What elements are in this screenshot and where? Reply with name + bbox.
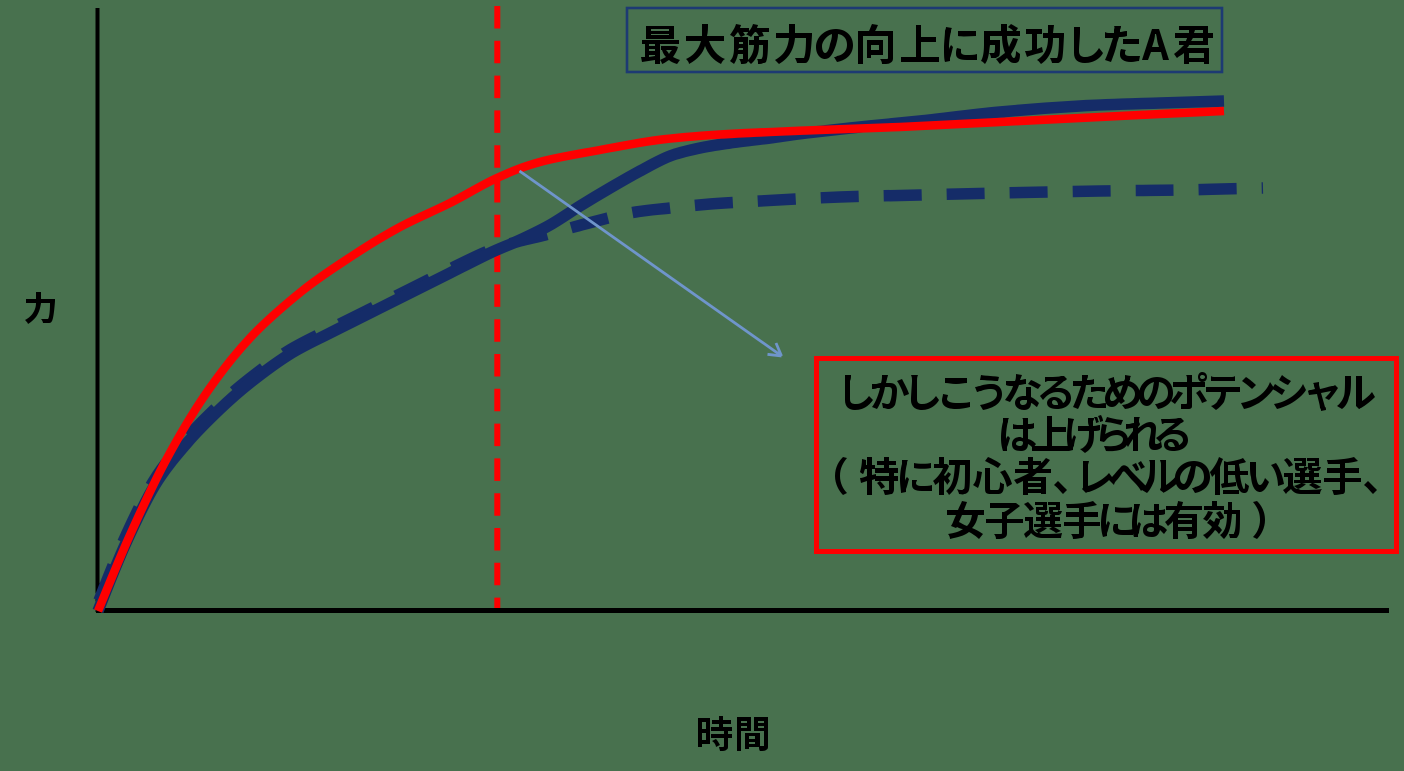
callout text line 1: しかしこうなるためのポテンシャル <box>845 372 1375 411</box>
light blue annotation arrow head barb 1 <box>768 354 782 356</box>
x-axis <box>96 608 1389 613</box>
red dashed vertical guide line <box>494 6 500 608</box>
top title text: 最大筋力の向上に成功したA君 <box>641 24 1213 64</box>
y-axis <box>96 8 100 612</box>
red callout box <box>817 359 1397 552</box>
callout text line 3: （特に初心者、レベルの低い選手、 <box>835 457 1377 495</box>
light blue annotation arrow shaft <box>520 171 782 356</box>
callout text line 4: 女子選手には有効） <box>947 501 1265 539</box>
callout text line 2: は上げられる <box>1001 415 1188 453</box>
navy dashed plateau curve <box>96 188 1263 608</box>
light blue annotation arrow head barb 2 <box>776 343 782 356</box>
navy solid S-shaped curve <box>98 101 1224 611</box>
x-axis label: 時間 <box>698 716 768 751</box>
red solid saturating curve <box>98 111 1224 611</box>
y-axis label: 力 <box>25 292 55 324</box>
top title box <box>627 8 1222 72</box>
